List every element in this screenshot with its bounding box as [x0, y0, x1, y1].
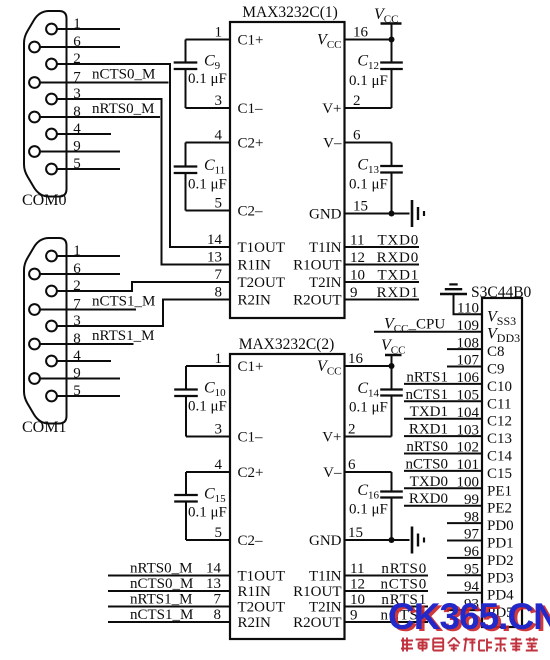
svg-text:1: 1	[215, 25, 223, 41]
svg-text:98: 98	[464, 509, 479, 525]
svg-text:MAX3232C(2): MAX3232C(2)	[239, 336, 335, 353]
svg-text:11: 11	[350, 561, 364, 577]
svg-text:9: 9	[350, 608, 358, 624]
svg-text:2: 2	[353, 93, 361, 109]
svg-text:T2IN: T2IN	[309, 600, 342, 616]
svg-text:C9: C9	[487, 362, 505, 378]
svg-text:105: 105	[457, 388, 480, 404]
svg-text:15: 15	[348, 525, 363, 541]
svg-text:PD0: PD0	[487, 518, 514, 534]
svg-text:13: 13	[207, 250, 222, 266]
svg-text:PE2: PE2	[487, 501, 512, 517]
svg-text:8: 8	[214, 607, 222, 623]
svg-text:nRTS1_M: nRTS1_M	[130, 592, 192, 608]
svg-text:T1IN: T1IN	[309, 569, 342, 585]
svg-text:6: 6	[353, 128, 361, 144]
svg-text:V–: V–	[323, 465, 342, 481]
svg-text:R2OUT: R2OUT	[293, 293, 341, 309]
svg-text:S3C44B0: S3C44B0	[471, 284, 532, 301]
svg-text:GND: GND	[309, 533, 342, 549]
svg-text:10: 10	[350, 592, 365, 608]
svg-text:106: 106	[457, 370, 480, 386]
svg-text:15: 15	[353, 199, 368, 215]
svg-text:99: 99	[464, 492, 479, 508]
svg-text:GND: GND	[309, 207, 342, 223]
svg-text:C15: C15	[487, 466, 512, 482]
svg-text:C1–: C1–	[238, 430, 264, 446]
svg-text:VCC_CPU: VCC_CPU	[384, 316, 445, 336]
svg-text:T2IN: T2IN	[309, 275, 342, 291]
svg-text:C12: C12	[487, 414, 512, 430]
svg-text:V+: V+	[322, 101, 341, 117]
svg-text:5: 5	[215, 196, 223, 212]
svg-text:R2OUT: R2OUT	[293, 615, 341, 631]
svg-text:16: 16	[348, 351, 364, 367]
svg-text:T1OUT: T1OUT	[238, 240, 286, 256]
svg-text:TXD0: TXD0	[377, 233, 419, 249]
svg-text:97: 97	[464, 527, 480, 543]
svg-text:nRTS0: nRTS0	[381, 561, 427, 577]
svg-text:T2OUT: T2OUT	[238, 275, 286, 291]
svg-text:11: 11	[350, 233, 364, 249]
svg-text:0.1 μF: 0.1 μF	[349, 400, 388, 416]
svg-text:nRTS0_M: nRTS0_M	[92, 101, 154, 117]
svg-text:C1–: C1–	[238, 101, 264, 117]
svg-text:5: 5	[215, 525, 223, 541]
svg-text:RXD0: RXD0	[409, 491, 448, 507]
svg-text:0.1 μF: 0.1 μF	[349, 73, 388, 89]
svg-text:C11: C11	[487, 396, 511, 412]
svg-text:R2IN: R2IN	[238, 615, 272, 631]
svg-text:C1+: C1+	[238, 359, 264, 375]
svg-text:C10: C10	[487, 379, 512, 395]
svg-text:14: 14	[207, 232, 223, 248]
svg-text:14: 14	[206, 561, 222, 577]
svg-text:PD3: PD3	[487, 570, 514, 586]
svg-text:PE1: PE1	[487, 483, 512, 499]
svg-text:R2IN: R2IN	[238, 293, 272, 309]
svg-text:T1OUT: T1OUT	[238, 569, 286, 585]
svg-text:TXD0: TXD0	[410, 474, 448, 490]
svg-text:nCTS0_M: nCTS0_M	[130, 576, 193, 592]
svg-text:TXD1: TXD1	[377, 268, 419, 284]
svg-text:nCTS0_M: nCTS0_M	[92, 67, 155, 83]
svg-text:R1IN: R1IN	[238, 258, 272, 274]
svg-text:95: 95	[464, 562, 479, 578]
svg-text:0.1 μF: 0.1 μF	[188, 399, 227, 415]
svg-text:nRTS0_M: nRTS0_M	[130, 561, 192, 577]
svg-text:nCTS0: nCTS0	[380, 577, 427, 593]
svg-text:nRTS1_M: nRTS1_M	[92, 328, 154, 344]
svg-text:R1OUT: R1OUT	[293, 584, 341, 600]
svg-text:R1IN: R1IN	[238, 584, 272, 600]
svg-text:C2+: C2+	[238, 136, 264, 152]
svg-text:103: 103	[457, 422, 480, 438]
svg-text:C8: C8	[487, 344, 505, 360]
svg-text:C2–: C2–	[238, 204, 264, 220]
svg-text:MAX3232C(1): MAX3232C(1)	[242, 4, 338, 21]
svg-text:3: 3	[215, 422, 223, 438]
svg-text:PD2: PD2	[487, 553, 514, 569]
svg-text:COM0: COM0	[22, 192, 66, 209]
svg-text:C2+: C2+	[238, 465, 264, 481]
svg-text:R1OUT: R1OUT	[293, 258, 341, 274]
svg-text:RXD0: RXD0	[377, 250, 419, 266]
svg-text:V+: V+	[322, 430, 341, 446]
svg-text:94: 94	[464, 579, 480, 595]
svg-text:COM1: COM1	[22, 419, 66, 436]
svg-text:RXD1: RXD1	[377, 285, 419, 301]
svg-text:0.1 μF: 0.1 μF	[188, 505, 227, 521]
svg-text:16: 16	[353, 25, 369, 41]
svg-text:9: 9	[350, 285, 358, 301]
svg-text:0.1 μF: 0.1 μF	[349, 177, 388, 193]
svg-text:C13: C13	[487, 431, 512, 447]
svg-text:1: 1	[215, 351, 223, 367]
svg-text:nRTS0: nRTS0	[406, 439, 448, 455]
svg-text:nRTS1: nRTS1	[406, 369, 448, 385]
svg-text:8: 8	[215, 285, 223, 301]
svg-text:nCTS0: nCTS0	[405, 456, 448, 472]
svg-text:102: 102	[457, 440, 480, 456]
svg-text:10: 10	[350, 268, 365, 284]
svg-text:C14: C14	[487, 449, 513, 465]
svg-text:0.1 μF: 0.1 μF	[349, 502, 388, 518]
svg-text:PD1: PD1	[487, 536, 514, 552]
svg-text:107: 107	[457, 353, 480, 369]
svg-text:12: 12	[350, 577, 365, 593]
svg-text:12: 12	[350, 250, 365, 266]
svg-text:nCTS1_M: nCTS1_M	[92, 294, 155, 310]
svg-text:4: 4	[215, 128, 223, 144]
svg-text:7: 7	[215, 267, 223, 283]
svg-text:CK365.CN: CK365.CN	[388, 596, 550, 637]
svg-text:nCTS1: nCTS1	[405, 387, 448, 403]
svg-text:RXD1: RXD1	[409, 422, 448, 438]
svg-text:T2OUT: T2OUT	[238, 600, 286, 616]
svg-text:C1+: C1+	[238, 33, 264, 49]
svg-text:3: 3	[215, 93, 223, 109]
svg-text:T1IN: T1IN	[309, 240, 342, 256]
svg-text:V–: V–	[323, 136, 342, 152]
svg-text:C2–: C2–	[238, 533, 264, 549]
svg-text:96: 96	[464, 544, 480, 560]
svg-text:104: 104	[457, 405, 480, 421]
svg-text:0.1 μF: 0.1 μF	[188, 71, 227, 87]
svg-text:108: 108	[457, 335, 480, 351]
svg-text:0.1 μF: 0.1 μF	[188, 177, 227, 193]
svg-text:4: 4	[215, 457, 223, 473]
svg-text:TXD1: TXD1	[410, 404, 448, 420]
svg-text:6: 6	[348, 457, 356, 473]
svg-text:2: 2	[348, 422, 356, 438]
svg-text:101: 101	[457, 457, 480, 473]
svg-text:110: 110	[457, 301, 479, 317]
svg-text:109: 109	[457, 318, 480, 334]
svg-text:nCTS1_M: nCTS1_M	[130, 607, 193, 623]
svg-text:7: 7	[214, 592, 222, 608]
svg-text:100: 100	[457, 475, 480, 491]
svg-text:13: 13	[206, 576, 221, 592]
